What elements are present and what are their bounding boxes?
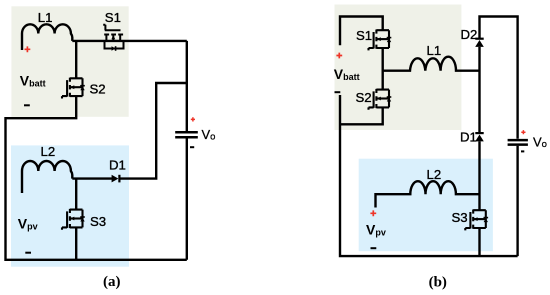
svg-text:S1: S1 [356, 28, 372, 43]
svg-text:S3: S3 [90, 214, 106, 229]
svg-text:S1: S1 [105, 10, 121, 25]
svg-text:S2: S2 [356, 90, 372, 105]
svg-text:L2: L2 [41, 144, 56, 159]
svg-text:L1: L1 [38, 10, 53, 25]
svg-text:S2: S2 [90, 82, 106, 97]
svg-text:(a): (a) [103, 274, 121, 290]
svg-text:L1: L1 [427, 43, 442, 58]
svg-text:D1: D1 [460, 130, 477, 145]
svg-text:(b): (b) [429, 274, 447, 290]
svg-text:S3: S3 [452, 210, 468, 225]
svg-text:D2: D2 [461, 27, 478, 42]
svg-text:D1: D1 [109, 157, 126, 172]
svg-text:L2: L2 [427, 167, 442, 182]
